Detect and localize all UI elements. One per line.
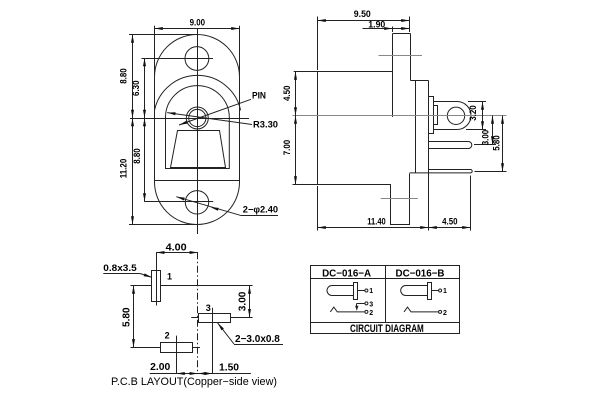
svg-text:3.00: 3.00 (237, 291, 248, 311)
svg-text:2: 2 (369, 310, 373, 317)
svg-text:1: 1 (369, 288, 373, 295)
svg-text:2: 2 (165, 330, 170, 340)
svg-text:8.80: 8.80 (119, 68, 129, 84)
svg-text:P.C.B LAYOUT(Copper−side view): P.C.B LAYOUT(Copper−side view) (111, 376, 277, 388)
svg-text:9.00: 9.00 (190, 18, 205, 28)
svg-text:11.20: 11.20 (119, 159, 129, 179)
svg-text:5.80: 5.80 (491, 135, 501, 151)
svg-text:2−3.0x0.8: 2−3.0x0.8 (235, 334, 280, 345)
svg-text:DC−016−A: DC−016−A (322, 268, 371, 279)
svg-text:DC−016−B: DC−016−B (396, 268, 445, 279)
svg-text:4.50: 4.50 (282, 86, 292, 102)
svg-text:8.80: 8.80 (132, 148, 142, 164)
svg-text:1: 1 (167, 272, 172, 282)
svg-text:2: 2 (443, 310, 447, 317)
svg-text:4.50: 4.50 (442, 217, 457, 227)
svg-text:PIN: PIN (252, 91, 266, 101)
svg-text:4.00: 4.00 (166, 242, 187, 253)
svg-text:2−φ2.40: 2−φ2.40 (243, 205, 278, 215)
svg-text:1.90: 1.90 (368, 19, 385, 29)
svg-text:3.00: 3.00 (481, 130, 491, 146)
svg-text:7.00: 7.00 (282, 140, 292, 156)
svg-text:2.00: 2.00 (150, 362, 171, 373)
svg-text:3.20: 3.20 (468, 105, 478, 121)
svg-text:6.30: 6.30 (131, 80, 141, 96)
svg-text:5.80: 5.80 (121, 307, 132, 327)
svg-text:R3.30: R3.30 (253, 119, 278, 129)
svg-text:0.8x3.5: 0.8x3.5 (103, 263, 136, 273)
svg-text:1.50: 1.50 (219, 362, 239, 373)
svg-text:1: 1 (443, 288, 447, 295)
svg-text:3: 3 (206, 303, 211, 313)
svg-text:9.50: 9.50 (354, 9, 371, 19)
svg-text:11.40: 11.40 (367, 217, 386, 227)
svg-text:CIRCUIT DIAGRAM: CIRCUIT DIAGRAM (350, 323, 424, 335)
svg-text:3: 3 (369, 302, 373, 309)
